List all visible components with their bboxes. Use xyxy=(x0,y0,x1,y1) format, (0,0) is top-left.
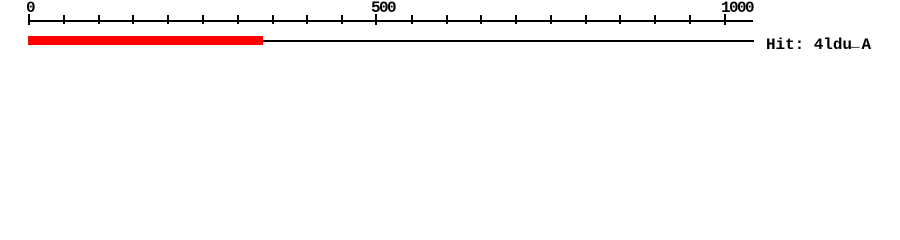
ruler major tick 0 xyxy=(28,14,30,25)
query line xyxy=(28,40,754,42)
ruler label 500 xyxy=(371,0,395,16)
hit label xyxy=(766,37,871,53)
ruler minor tick 850 xyxy=(619,15,621,24)
ruler major tick 500 xyxy=(375,14,377,25)
ruler minor tick 400 xyxy=(306,15,308,24)
ruler minor tick 250 xyxy=(202,15,204,24)
ruler minor tick 600 xyxy=(446,15,448,24)
ruler axis line xyxy=(28,20,753,22)
ruler label 1000 xyxy=(721,0,753,16)
ruler minor tick 750 xyxy=(550,15,552,24)
ruler minor tick 350 xyxy=(272,15,274,24)
ruler minor tick 100 xyxy=(98,15,100,24)
ruler label 0 xyxy=(26,0,34,16)
ruler minor tick 800 xyxy=(585,15,587,24)
hit aligned region (red bar) xyxy=(28,36,263,45)
ruler major tick 1000 xyxy=(724,14,726,25)
ruler minor tick 550 xyxy=(411,15,413,24)
ruler minor tick 450 xyxy=(341,15,343,24)
ruler minor tick 900 xyxy=(654,15,656,24)
ruler minor tick 50 xyxy=(63,15,65,24)
ruler minor tick 300 xyxy=(237,15,239,24)
ruler minor tick 200 xyxy=(167,15,169,24)
ruler minor tick 150 xyxy=(132,15,134,24)
ruler minor tick 650 xyxy=(480,15,482,24)
ruler minor tick 950 xyxy=(689,15,691,24)
ruler minor tick 700 xyxy=(515,15,517,24)
